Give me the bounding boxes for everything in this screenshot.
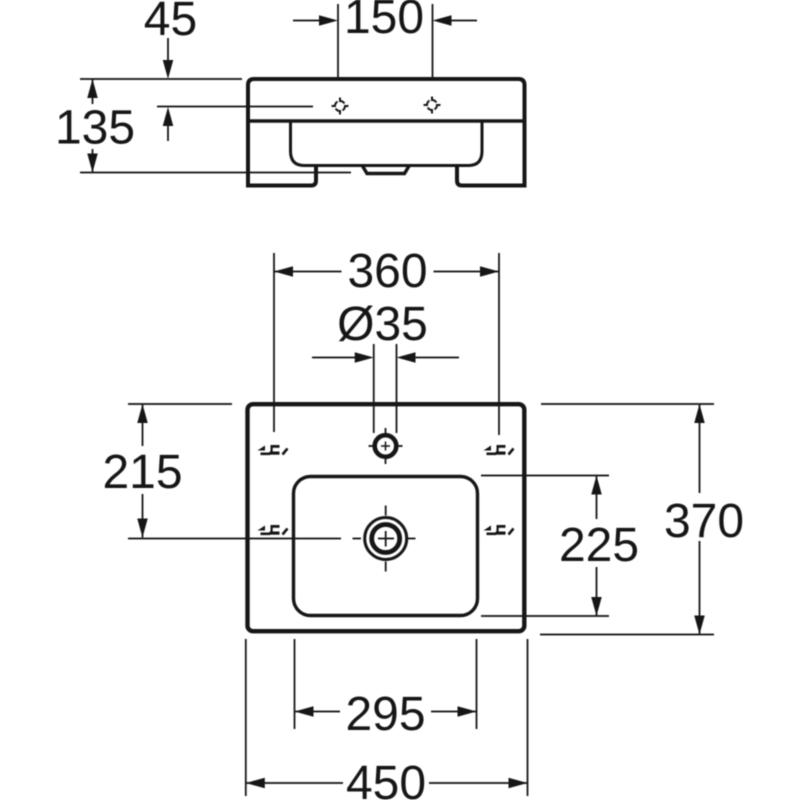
extension line rim top bbox=[80, 78, 242, 80]
tap knockout mark mid-left (plan) bbox=[258, 525, 288, 535]
svg-text:150: 150 bbox=[344, 0, 424, 44]
dimension 215 line bbox=[142, 404, 144, 538]
tap hole crosshair ticks bbox=[369, 428, 403, 464]
tap knockout mark right (elevation) bbox=[424, 97, 441, 114]
svg-text:215: 215 bbox=[102, 446, 182, 499]
tap knockout mark top-left (plan) bbox=[258, 445, 288, 455]
rim bottom line bbox=[247, 119, 527, 122]
basin inner rounded rectangle bbox=[294, 477, 478, 616]
tap knockout mark top-right (plan) bbox=[484, 445, 514, 455]
basin body outer shell bbox=[248, 79, 525, 186]
dimension 450 extension lines bbox=[246, 639, 528, 796]
dimension 215 arrowheads bbox=[137, 404, 148, 423]
outer rim rectangle bbox=[248, 404, 525, 631]
dimension 360 line bbox=[274, 271, 499, 273]
dimension 295 line bbox=[295, 711, 477, 713]
extension line tap-hole height bbox=[157, 106, 313, 108]
dimension 370 extension lines bbox=[540, 404, 714, 635]
dimension Ø35 arrows bbox=[312, 357, 356, 359]
dimension 295 arrowheads bbox=[295, 706, 314, 717]
tap knockout mark mid-right (plan) bbox=[484, 525, 514, 535]
drain crosshair ticks bbox=[353, 506, 416, 572]
svg-text:295: 295 bbox=[345, 688, 425, 741]
tap hole bbox=[375, 435, 397, 457]
dimension 450 line bbox=[246, 782, 528, 784]
dimension 215 top extension line bbox=[128, 403, 232, 405]
drain inner ring bbox=[372, 525, 400, 553]
dimension 150 arrows bbox=[293, 20, 321, 22]
svg-text:45: 45 bbox=[144, 0, 197, 46]
drain outer ring bbox=[365, 518, 407, 560]
tap knockout mark left (elevation) bbox=[332, 98, 349, 115]
dimension 215 / drain centerline extension bbox=[128, 538, 341, 540]
dimension 45 lower arrow bbox=[167, 125, 169, 141]
dimension 295 extension lines bbox=[295, 639, 477, 729]
dimension 370 line bbox=[699, 404, 701, 635]
dimension 45 upper arrow bbox=[167, 38, 169, 61]
dimension 450 arrowheads bbox=[246, 778, 265, 789]
right mounting foot bbox=[457, 166, 527, 186]
dimension 135 line bbox=[92, 79, 94, 173]
tap hole center cross bbox=[381, 442, 390, 451]
dimension 370 arrowheads bbox=[694, 404, 705, 423]
dimension 225 extension lines bbox=[481, 476, 609, 617]
svg-text:Ø35: Ø35 bbox=[337, 298, 428, 351]
dimension 135 arrowheads bbox=[87, 79, 98, 98]
svg-text:135: 135 bbox=[55, 102, 135, 155]
dimension 150 extension lines bbox=[338, 4, 433, 77]
dimension 360 extension lines bbox=[274, 253, 499, 435]
drain center cross bbox=[378, 531, 394, 547]
svg-text:370: 370 bbox=[664, 495, 744, 548]
dimension 225 arrowheads bbox=[591, 476, 602, 495]
extension line basin underside bbox=[80, 172, 351, 174]
dimension 360 arrowheads bbox=[274, 266, 293, 277]
bowl outline bbox=[291, 121, 483, 166]
drain boss bbox=[363, 166, 410, 174]
left mounting foot bbox=[246, 166, 316, 186]
svg-text:360: 360 bbox=[347, 245, 427, 298]
dimension Ø35 extension lines bbox=[374, 344, 397, 433]
svg-text:225: 225 bbox=[559, 519, 639, 572]
dimension 225 line bbox=[596, 476, 598, 617]
svg-text:450: 450 bbox=[346, 757, 426, 800]
